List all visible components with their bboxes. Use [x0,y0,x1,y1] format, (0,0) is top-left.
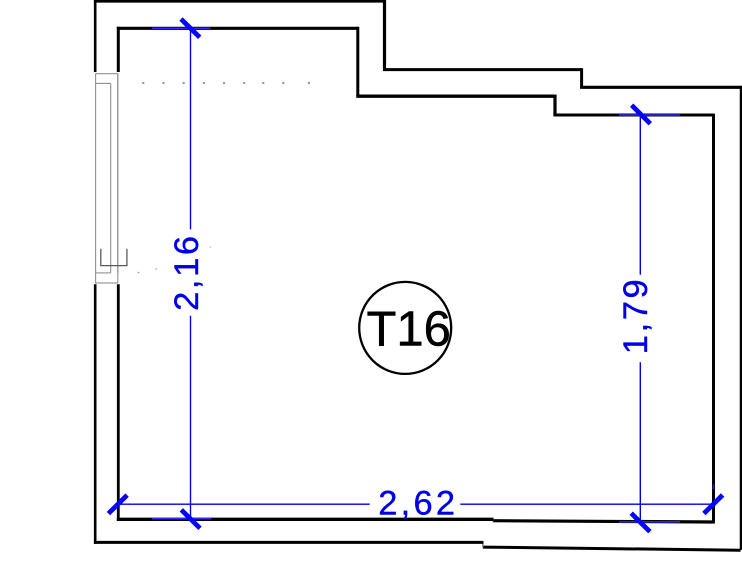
window W1 top sill [96,82,111,84]
wall outer bottom right sloped [483,547,741,550]
wall outer top [94,0,385,3]
dim line vertical 2,16 lower segment [190,316,192,519]
dim overline on bottom wall right [619,521,680,523]
dim line horizontal 2,62 left segment [116,503,369,505]
wall inner bottom step connector [492,518,494,522]
window W1 glass line vertical [110,83,112,273]
wall inner left upper (above window) [117,27,120,72]
wall inner bottom left [117,518,494,521]
svg-text:1,79: 1,79 [617,277,655,355]
window W1 opening white fill [94,72,120,283]
window W1 outer frame [96,74,118,283]
wall inner left lower (below window) [117,284,120,521]
wall inner top [117,27,358,30]
dim overline on top wall [152,27,211,29]
dim line vertical 1,79 lower segment [639,362,641,522]
faint dashed ceiling line dots [142,82,310,84]
svg-text:T16: T16 [367,302,451,356]
wall inner second horizontal [356,95,555,98]
tick bottom of 1,79 [631,513,650,532]
wall outer step2 vertical [580,68,583,87]
tiny speck right of window [138,272,140,273]
wall outer step1 vertical [383,0,386,70]
tick left of 2,62 [108,495,127,513]
dim line vertical 2,16 upper segment [190,28,192,229]
wall outer bottom left [94,541,484,544]
tick top of 2,16 [181,19,200,37]
window W1 inner pane vertical [117,74,119,274]
wall outer left upper (above window) [94,0,97,72]
svg-text:2,16: 2,16 [168,233,206,311]
room label circle [359,282,451,374]
wall outer bottom step connector [482,542,484,548]
tiny speck above 2,16 text [210,246,211,247]
tiny speck near 2,16 text [156,268,158,269]
gray niche bracket under window [101,249,127,266]
wall inner bottom right (slight slope) [493,521,715,522]
dim overline on inner third wall [619,114,680,116]
wall inner step1 vertical [356,27,359,97]
wall outer third horizontal [580,86,741,89]
svg-text:2,62: 2,62 [378,484,458,522]
dim extension dash on inner right wall [713,484,715,489]
dim line horizontal 2,62 right segment [460,503,713,505]
dim overline on bottom wall left [152,518,211,520]
dim line vertical 1,79 upper segment [639,115,641,275]
wall inner right [712,114,715,522]
tick bottom of 2,16 [181,510,200,529]
tick top of 1,79 [632,105,651,124]
tick right of 2,62 [704,495,723,514]
wall inner third horizontal [553,114,713,117]
wall inner step2 vertical [553,95,556,115]
wall outer second horizontal [383,68,582,71]
wall outer right [740,86,742,550]
window W1 bottom sill [96,272,111,274]
wall outer left lower (below window) [94,284,97,544]
